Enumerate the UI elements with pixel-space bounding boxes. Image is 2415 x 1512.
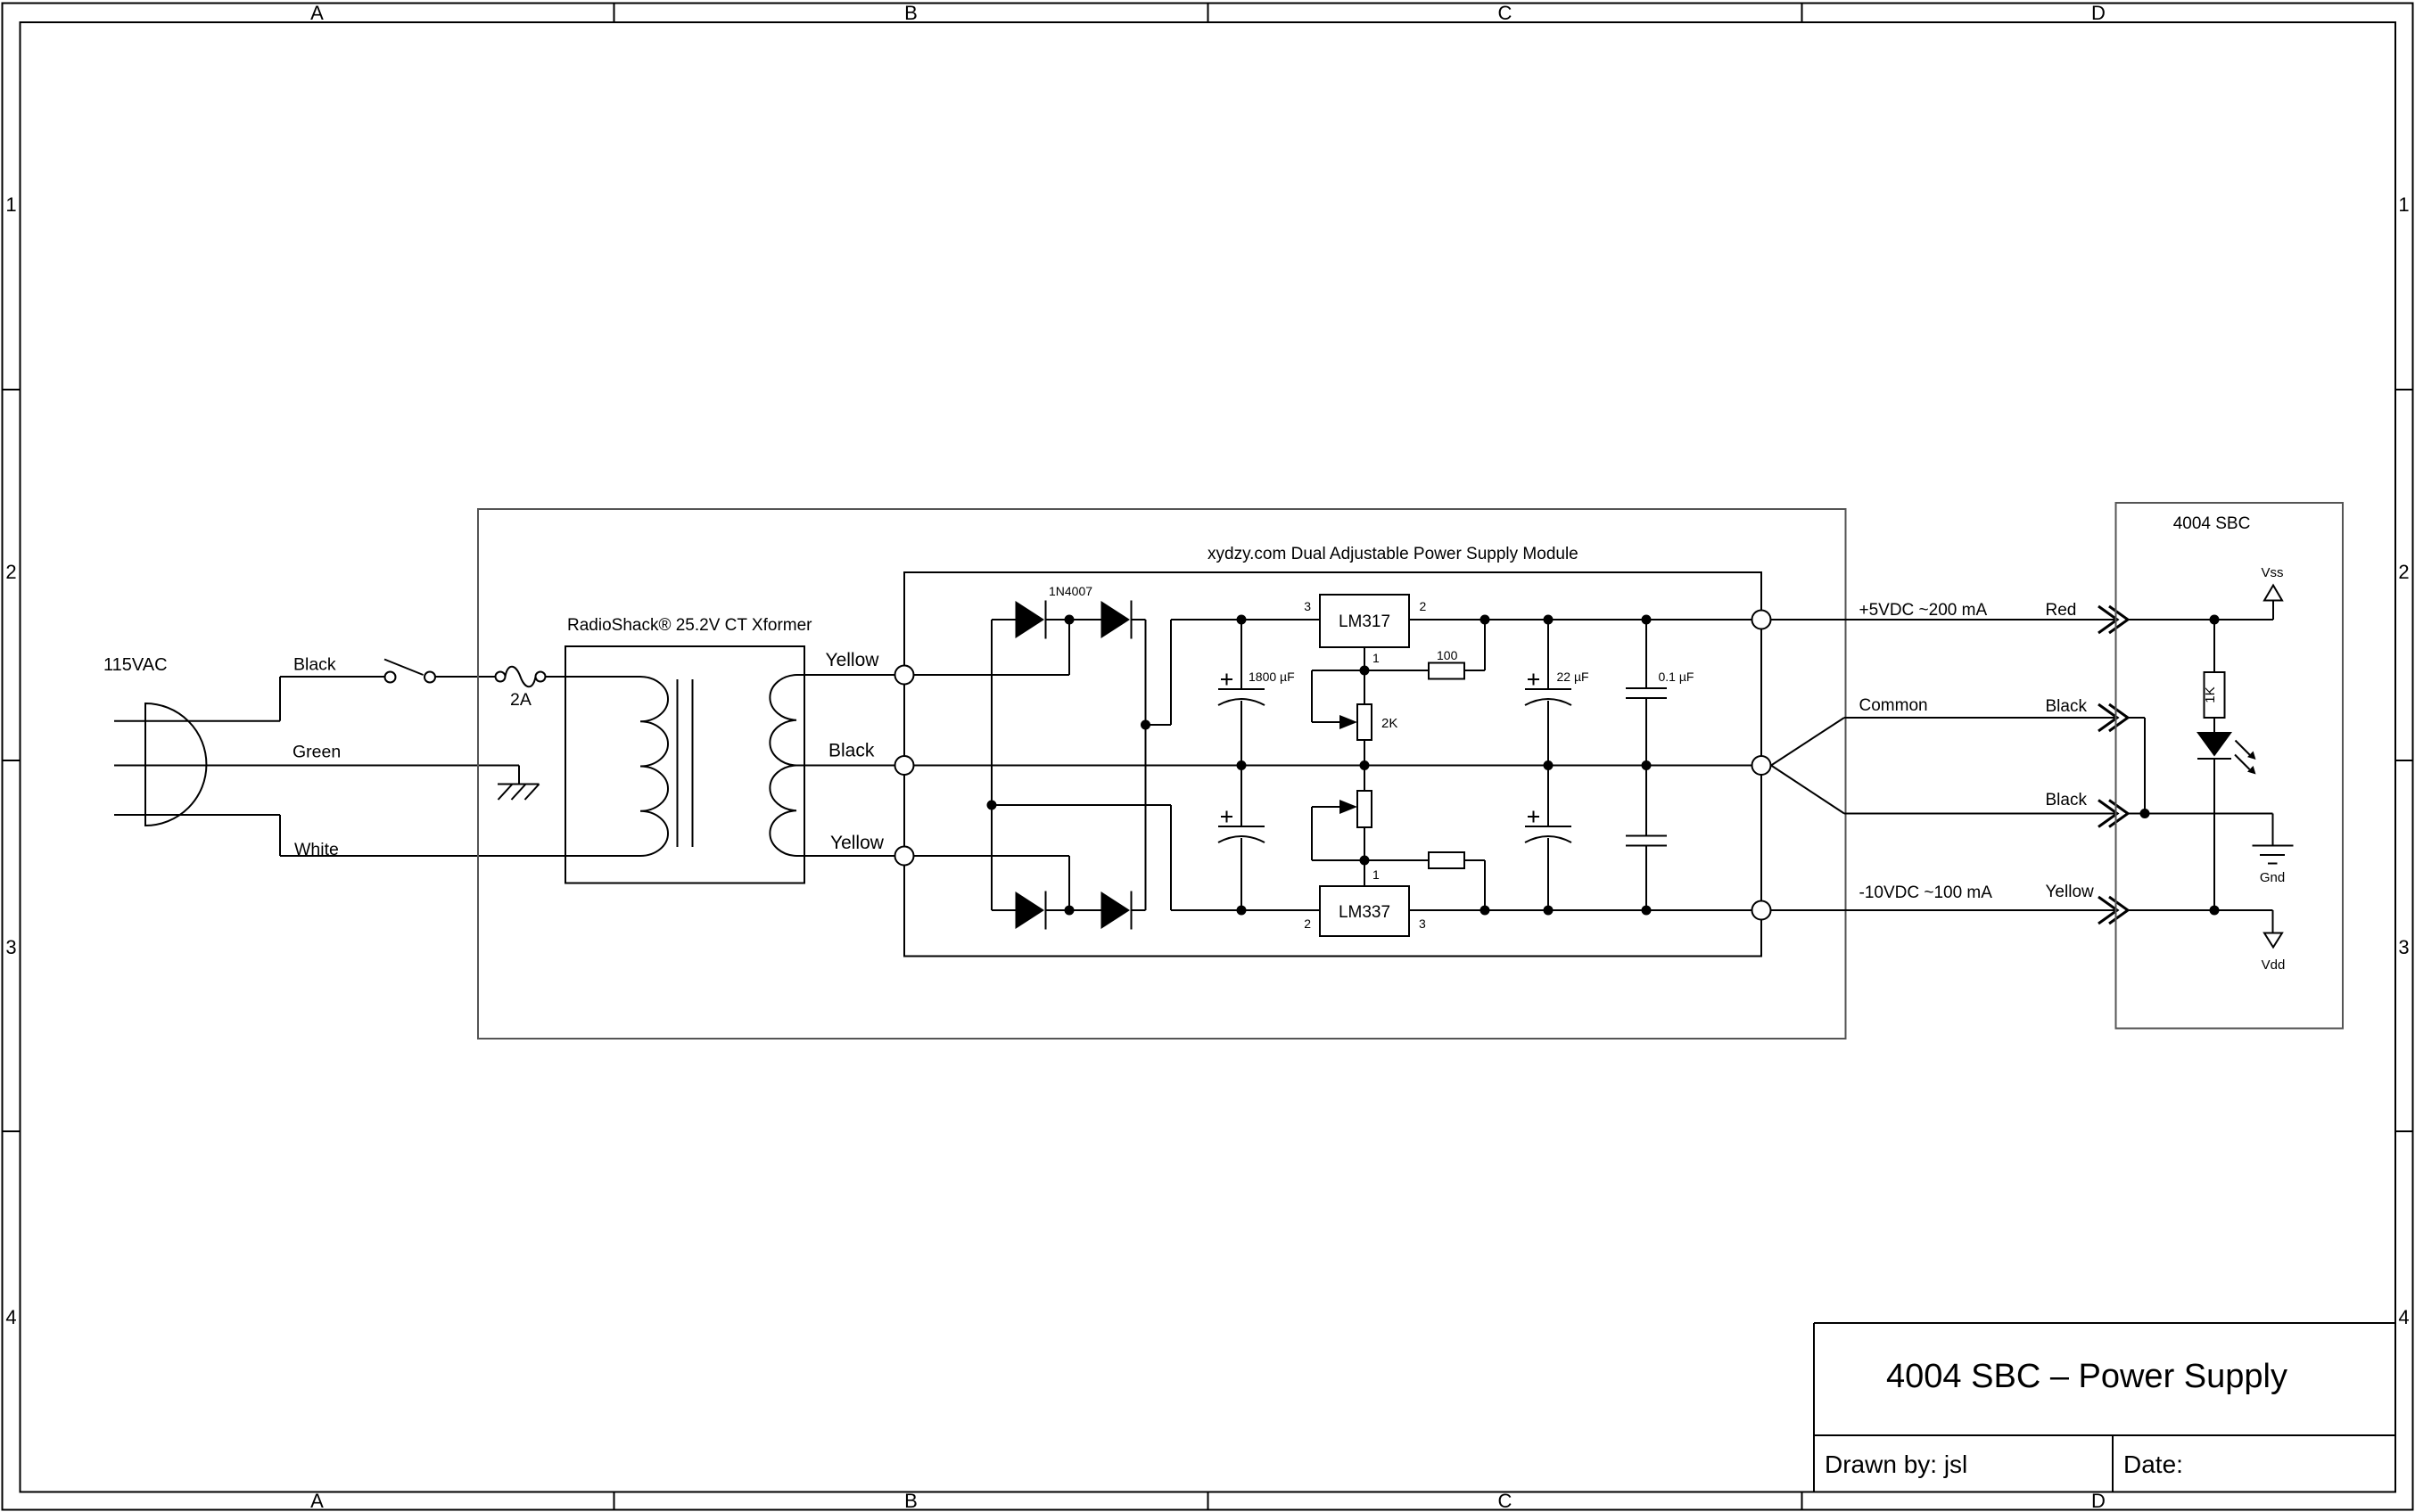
svg-text:-10VDC ~100 mA: -10VDC ~100 mA	[1859, 883, 1993, 902]
svg-text:3: 3	[5, 936, 16, 958]
regulator U1 LM317	[1320, 595, 1409, 647]
svg-text:1: 1	[1372, 651, 1380, 665]
wire bridge bottom row	[992, 909, 1016, 911]
svg-text:+5VDC ~200 mA: +5VDC ~200 mA	[1859, 601, 1988, 620]
node C5 common	[1642, 760, 1652, 770]
module terminal +5 out	[1752, 611, 1771, 629]
power symbol Vdd	[2272, 910, 2274, 933]
node top AC junction	[1065, 615, 1075, 625]
node C5 plus rail	[1642, 615, 1652, 625]
wire lower black inside SBC	[2128, 813, 2273, 815]
node R1 to +5 rail	[1480, 615, 1490, 625]
module terminal -10 out	[1752, 901, 1771, 920]
node 1K tap	[2210, 615, 2220, 625]
svg-text:xydzy.com Dual Adjustable Powe: xydzy.com Dual Adjustable Power Supply M…	[1207, 545, 1578, 563]
wire common rail	[914, 765, 1752, 767]
svg-text:A: A	[310, 2, 324, 24]
svg-text:C: C	[1498, 1490, 1512, 1512]
svg-text:1N4007: 1N4007	[1049, 584, 1092, 598]
svg-text:Black: Black	[2046, 791, 2088, 809]
node C1 plus rail	[1237, 615, 1247, 625]
node R2 to -10 rail	[1480, 906, 1490, 916]
wire C2 top lead	[1240, 766, 1242, 827]
wire C4 bottom lead	[1547, 838, 1549, 910]
transformer secondary winding	[770, 675, 796, 856]
wire fuse to transformer	[546, 676, 641, 678]
svg-text:3: 3	[2398, 936, 2409, 958]
svg-text:Yellow: Yellow	[826, 650, 880, 670]
svg-text:3: 3	[1419, 916, 1426, 931]
wire common split lower	[1771, 766, 1844, 814]
power symbol Vss	[2272, 601, 2274, 620]
wire LM337 output	[1409, 909, 1752, 911]
connector chevron -10	[2098, 897, 2117, 924]
resistor R2 100	[1364, 859, 1429, 861]
resistor R3 1K	[2213, 620, 2215, 672]
node bottom AC junction	[1065, 906, 1075, 916]
wire plug ground (green)	[114, 765, 519, 767]
svg-text:Red: Red	[2046, 601, 2077, 620]
transformer core	[677, 679, 679, 847]
capacitor C6 0.1uF	[1645, 766, 1647, 836]
svg-text:A: A	[310, 1490, 324, 1512]
svg-text:3: 3	[1304, 599, 1311, 613]
wire secondary yellow bottom	[796, 855, 895, 857]
connector chevron common	[2098, 704, 2117, 731]
wire AC2 into bridge	[914, 855, 1070, 857]
wire common split upper	[1771, 718, 1844, 766]
svg-text:D: D	[2091, 1490, 2106, 1512]
svg-text:Common: Common	[1859, 696, 1928, 715]
wire bridge minus rail	[991, 620, 993, 910]
wire +5 inside SBC	[2128, 619, 2273, 620]
wire -10VDC output	[1771, 909, 2116, 911]
svg-text:100: 100	[1437, 648, 1458, 662]
4004 SBC box	[2116, 503, 2344, 1029]
svg-text:1K: 1K	[2203, 686, 2218, 703]
wire upper black inside SBC	[2128, 717, 2145, 719]
svg-text:D: D	[2091, 2, 2106, 24]
wire secondary yellow top	[796, 674, 895, 676]
svg-text:4004 SBC – Power Supply: 4004 SBC – Power Supply	[1886, 1358, 2287, 1395]
svg-text:2K: 2K	[1381, 716, 1397, 731]
wire bridge plus rail	[1145, 620, 1147, 910]
node plus tap	[1141, 720, 1150, 730]
svg-text:Black: Black	[293, 655, 336, 675]
svg-text:White: White	[294, 840, 339, 859]
regulator U2 LM337	[1320, 886, 1409, 936]
LED arrows	[2236, 741, 2251, 756]
svg-text:4004 SBC: 4004 SBC	[2173, 514, 2251, 533]
svg-text:Vdd: Vdd	[2262, 957, 2286, 973]
transformer T1 box	[565, 646, 804, 883]
diode D2	[1101, 601, 1131, 638]
svg-text:LM317: LM317	[1339, 612, 1390, 631]
svg-text:1: 1	[2398, 193, 2409, 216]
wire AC1 into bridge	[914, 674, 1070, 676]
power supply module box	[904, 572, 1761, 957]
capacitor C3 22uF plates	[1525, 688, 1571, 690]
chassis ground	[518, 766, 520, 785]
svg-text:RadioShack® 25.2V CT Xformer: RadioShack® 25.2V CT Xformer	[567, 616, 812, 635]
node LM317 adj	[1360, 666, 1370, 676]
node C6 minus rail	[1642, 906, 1652, 916]
svg-text:Vss: Vss	[2261, 565, 2283, 580]
node C3 plus rail	[1544, 615, 1554, 625]
node C4 minus rail	[1544, 906, 1554, 916]
capacitor C5 0.1uF	[1645, 620, 1647, 688]
wire secondary center tap black	[796, 765, 895, 767]
wire C2 bottom lead	[1240, 838, 1242, 910]
module terminal AC2	[895, 847, 914, 866]
svg-text:B: B	[904, 1490, 918, 1512]
diode D1	[1016, 601, 1045, 638]
svg-text:Black: Black	[828, 741, 875, 761]
svg-text:115VAC: 115VAC	[103, 655, 168, 675]
svg-text:22 µF: 22 µF	[1557, 670, 1589, 684]
wire +5VDC output	[1771, 619, 2116, 620]
wire plug hot (black)	[114, 720, 280, 722]
svg-text:1: 1	[1372, 867, 1380, 882]
ground symbol Gnd	[2272, 814, 2274, 846]
svg-text:4: 4	[2398, 1306, 2409, 1328]
svg-text:2A: 2A	[510, 690, 532, 710]
wire bridge top row	[992, 619, 1016, 620]
node C2 minus rail	[1237, 906, 1247, 916]
capacitor C4 22uF plates	[1525, 826, 1571, 827]
module terminal common out	[1752, 756, 1771, 775]
diode D3	[1016, 892, 1045, 929]
svg-text:2: 2	[5, 561, 16, 583]
wire LM317 adj stem	[1364, 647, 1365, 670]
wire minus tap to LM337 input	[992, 804, 1171, 806]
node LM337 adj	[1360, 856, 1370, 866]
wire C3 top lead	[1547, 620, 1549, 689]
connector chevron +5	[2098, 606, 2117, 633]
wire C4 top lead	[1547, 766, 1549, 827]
wire yellow inside SBC	[2128, 909, 2273, 911]
svg-text:4: 4	[5, 1306, 16, 1328]
LED D5	[2197, 732, 2232, 757]
connector chevron black2	[2098, 801, 2117, 827]
capacitor C2 1800uF plates	[1218, 826, 1265, 827]
svg-text:Green: Green	[293, 743, 341, 762]
svg-text:0.1 µF: 0.1 µF	[1659, 670, 1694, 684]
svg-text:Yellow: Yellow	[2046, 883, 2095, 901]
svg-text:2: 2	[1304, 916, 1311, 931]
node C1 common	[1237, 760, 1247, 770]
node VR1 to common	[1360, 760, 1370, 770]
potentiometer VR2 2K	[1312, 859, 1364, 861]
svg-text:Drawn by: jsl: Drawn by: jsl	[1825, 1450, 1967, 1478]
svg-text:Gnd: Gnd	[2260, 870, 2285, 885]
svg-text:Date:: Date:	[2123, 1450, 2183, 1478]
svg-text:1800 µF: 1800 µF	[1249, 670, 1295, 684]
node C3 common	[1544, 760, 1554, 770]
svg-text:1: 1	[5, 193, 16, 216]
wire LM317 output	[1409, 619, 1752, 620]
wire plus tap to LM317 input	[1146, 724, 1172, 726]
wire plug neutral (white)	[114, 814, 280, 816]
svg-text:LM337: LM337	[1339, 903, 1390, 922]
switch SW1	[385, 672, 396, 683]
wire switch to fuse	[435, 676, 496, 678]
svg-text:Yellow: Yellow	[830, 833, 885, 853]
wire C1 top lead	[1240, 620, 1242, 689]
svg-text:Black: Black	[2046, 697, 2088, 716]
svg-text:2: 2	[2398, 561, 2409, 583]
svg-text:C: C	[1498, 2, 1512, 24]
potentiometer VR1 2K	[1312, 670, 1364, 671]
module terminal ACC	[895, 756, 914, 775]
diode D4	[1101, 892, 1131, 929]
title block	[1814, 1322, 2395, 1324]
fuse F1 2A	[496, 672, 506, 682]
wire LM337 adj stem	[1364, 860, 1365, 886]
wire C3 bottom lead	[1547, 701, 1549, 766]
svg-text:2: 2	[1420, 599, 1427, 613]
node minus tap	[987, 801, 997, 810]
capacitor C1 1800uF plates	[1218, 688, 1265, 690]
enclosure box	[478, 509, 1846, 1039]
wire C1 bottom lead	[1240, 701, 1242, 766]
AC plug 115VAC	[145, 703, 206, 826]
svg-text:B: B	[904, 2, 918, 24]
resistor R1 100	[1364, 670, 1429, 671]
node black join	[2140, 809, 2150, 818]
wire LED cathode down	[2213, 759, 2215, 910]
transformer primary winding	[640, 677, 668, 856]
module terminal AC1	[895, 666, 914, 685]
node LED cathode join	[2210, 906, 2220, 916]
